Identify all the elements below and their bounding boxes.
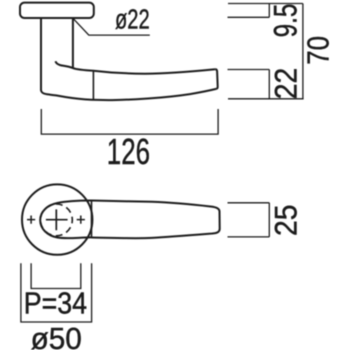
svg-text:9.5: 9.5	[268, 4, 304, 38]
svg-text:ø22: ø22	[115, 4, 150, 35]
svg-text:22: 22	[269, 68, 304, 100]
svg-text:ø50: ø50	[31, 321, 82, 350]
svg-text:70: 70	[300, 36, 334, 65]
svg-text:25: 25	[269, 205, 304, 237]
svg-text:126: 126	[107, 132, 150, 172]
svg-text:P=34: P=34	[24, 287, 87, 321]
